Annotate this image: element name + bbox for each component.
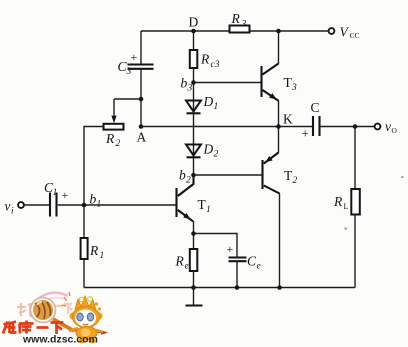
wire T3 collector riser (278, 31, 280, 64)
wire C3 to node A (140, 70, 142, 127)
wire Rc3 top stub (193, 31, 195, 50)
wire Re to rail (193, 271, 195, 288)
wire top rail right (R3 to Vcc terminal) (250, 30, 329, 32)
diode D2 (186, 145, 201, 156)
wire C1 to T1 base (58, 204, 176, 206)
svg-text:e: e (257, 262, 261, 272)
mascot ears (69, 312, 76, 319)
wire b1 to R1 (83, 205, 85, 238)
node junction rail/Ce (235, 285, 240, 290)
capacitor C3 (128, 63, 154, 65)
wire Ce to rail (236, 262, 238, 288)
svg-text:1: 1 (53, 188, 58, 198)
pink swoosh (38, 293, 68, 299)
wire R2 left to b1 drop (84, 127, 104, 206)
transistor T1 (175, 188, 177, 217)
svg-text:2: 2 (116, 139, 121, 149)
wire Rc3 to b3 and diode column (193, 68, 195, 175)
mascot arm left (69, 328, 78, 331)
node junction T3 collector / top rail (276, 29, 281, 34)
mascot arm right (95, 330, 103, 332)
svg-text:3: 3 (291, 83, 297, 93)
wire T1 emitter drop (193, 221, 195, 249)
wire T2 emitter riser from K (278, 127, 280, 153)
svg-text:e: e (185, 262, 189, 272)
transistor T3 (260, 66, 262, 97)
wire RL column lower (354, 215, 356, 288)
svg-text:b: b (179, 168, 186, 183)
svg-text:1: 1 (97, 200, 102, 210)
resistor R2 (potentiometer) (104, 124, 124, 130)
pointer stick (74, 331, 106, 333)
wire R1 to rail (83, 259, 85, 288)
mascot crown (75, 296, 96, 310)
resistor Rc3 (190, 50, 198, 68)
svg-text:b: b (181, 76, 188, 91)
svg-text:v: v (5, 199, 11, 214)
transistor T2 (261, 160, 263, 189)
ghost characters 一下 (54, 304, 72, 314)
svg-text:R: R (200, 52, 210, 67)
node D (191, 29, 196, 34)
wire K to C (279, 126, 313, 128)
ground (193, 288, 195, 306)
potentiometer R2 wiper arrow (113, 99, 115, 117)
svg-text:R: R (175, 254, 185, 269)
wire C to vo (321, 126, 375, 128)
svg-text:2: 2 (214, 150, 219, 160)
svg-text:A: A (137, 130, 147, 145)
svg-text:D: D (203, 142, 214, 157)
resistor R1 (81, 238, 88, 259)
svg-text:D: D (203, 94, 214, 109)
node K (276, 124, 281, 129)
mascot head (73, 307, 100, 328)
wire T2 collector to ground rail (279, 193, 281, 287)
magnifier handle (53, 319, 74, 331)
mascot body (76, 327, 97, 340)
svg-text:R: R (333, 194, 343, 209)
wire wiper horizontal (114, 98, 141, 100)
wire top rail left (C3 riser to D) (141, 30, 230, 32)
svg-text:D: D (189, 15, 199, 30)
node junction rail/T2 collector (277, 285, 282, 290)
svg-text:v: v (385, 119, 391, 134)
svg-text:CC: CC (350, 31, 360, 40)
node junction wiper tap (139, 97, 144, 102)
node junction RL tap (353, 124, 358, 129)
wire C3 riser (140, 31, 142, 64)
svg-text:+: + (62, 188, 69, 202)
capacitor Ce (229, 256, 247, 258)
svg-text:+: + (131, 50, 138, 64)
svg-text:c3: c3 (211, 60, 220, 70)
wire vi to C1 (25, 204, 50, 206)
svg-text:R: R (231, 11, 241, 26)
svg-text:2: 2 (186, 176, 191, 186)
svg-text:L: L (344, 202, 349, 211)
scan specks (401, 176, 404, 178)
svg-text:R: R (105, 131, 115, 146)
node b1 (82, 203, 87, 208)
wire bootstrap A to K (141, 126, 279, 128)
resistor Re (190, 249, 198, 271)
capacitor C (output) (312, 116, 314, 136)
wire RL column upper (354, 127, 356, 190)
svg-text:C: C (247, 254, 257, 269)
terminal vi (18, 202, 24, 208)
wire bottom rail (84, 287, 355, 289)
svg-text:3: 3 (187, 84, 193, 94)
svg-text:1: 1 (100, 251, 105, 261)
svg-text:+: + (302, 126, 309, 141)
mascot feet (78, 339, 85, 344)
wire emitter to Ce (194, 234, 238, 257)
svg-text:b: b (90, 192, 97, 207)
resistor RL (351, 189, 360, 215)
svg-text:K: K (283, 112, 293, 127)
node b2 (191, 173, 196, 178)
svg-text:www.dzsc.com: www.dzsc.com (22, 334, 98, 346)
node A (139, 124, 144, 129)
svg-text:i: i (11, 207, 14, 217)
svg-text:O: O (392, 126, 398, 135)
svg-text:1: 1 (214, 102, 219, 112)
wire b3 to T3 base (194, 82, 261, 84)
node junction emitter/Re/Ce (191, 231, 196, 236)
svg-text:R: R (89, 243, 99, 258)
terminal vo (375, 124, 381, 130)
wire b2 to T2 base (194, 174, 262, 176)
svg-text:3: 3 (241, 20, 247, 30)
magnifier ball (31, 298, 56, 323)
ghost character 找 (17, 303, 33, 316)
node b3 (191, 80, 196, 85)
svg-text:3: 3 (126, 67, 132, 77)
resistor R3 (230, 26, 250, 33)
diode D1 (186, 101, 201, 112)
capacitor C1 (49, 193, 51, 217)
svg-text:1: 1 (206, 205, 211, 215)
mascot eyes (77, 313, 83, 321)
mascot sparkles (62, 292, 70, 306)
svg-text:C: C (311, 100, 320, 115)
red text 维库一下 (3, 321, 64, 335)
terminal Vcc (329, 28, 335, 34)
watermark dzsc logo (3, 176, 404, 346)
wire T3 emitter to K (278, 101, 280, 127)
node junction rail/ground (191, 285, 196, 290)
svg-text:2: 2 (293, 176, 298, 186)
svg-text:+: + (227, 242, 234, 256)
